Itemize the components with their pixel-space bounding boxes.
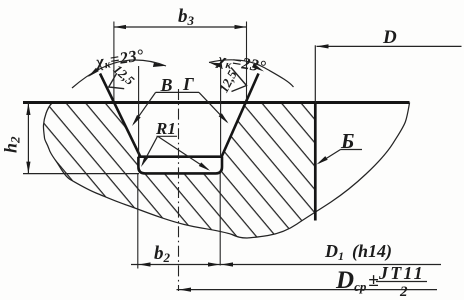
h2 arrow top — [26, 103, 30, 115]
arrow R1 right — [199, 162, 210, 170]
arrow Б — [317, 156, 328, 164]
leader В to left face — [134, 92, 156, 123]
D1 arrow — [221, 262, 233, 266]
break line (freehand section boundary curve) — [43, 103, 409, 239]
svg-text:D: D — [382, 27, 397, 48]
svg-text:D1(h14): D1(h14) — [324, 241, 392, 263]
svg-text:Г: Г — [182, 74, 194, 94]
v3 dimension line — [114, 26, 247, 28]
right roughness tick — [231, 68, 247, 92]
leader Г to right face — [199, 92, 227, 122]
v3 arrow right — [235, 25, 247, 29]
right angle arc arrow (lower-right) — [252, 64, 264, 72]
arrow Г — [219, 113, 229, 123]
groove bottom clearance box with R1 fillets — [138, 157, 222, 174]
svg-text:В: В — [160, 75, 173, 95]
groove left slant face — [100, 74, 141, 158]
hatching of material section — [20, 95, 420, 245]
svg-text:2: 2 — [399, 284, 408, 300]
arrow R1 left — [141, 155, 149, 167]
R1 leader to right fillet — [158, 137, 208, 170]
v2 arrow right — [208, 262, 220, 266]
R1 leader to left fillet — [143, 136, 158, 164]
groove bottom level line (left extension for h2) — [23, 173, 139, 175]
fraction bar — [376, 281, 427, 283]
Dcp arrow — [179, 288, 191, 292]
rim right edge (face B) bold vertical — [314, 103, 317, 221]
leader Б shelf — [341, 149, 363, 151]
groove bottom shoulder line — [138, 155, 222, 158]
v3 right extension line — [246, 22, 248, 101]
v2 / D1 dimension line — [131, 264, 441, 266]
svg-text:JT11: JT11 — [378, 263, 425, 283]
arrow В — [132, 115, 141, 126]
left angle arc arrow (right) — [153, 63, 166, 67]
groove centre line (dash-dot) — [178, 89, 180, 291]
left angle arc arrow (lower-left) — [88, 68, 99, 77]
extension line above rim edge for D — [314, 45, 316, 102]
right angle dimension arc — [209, 60, 294, 87]
right angle arc arrow (left) — [209, 63, 221, 68]
groove right slant face — [222, 74, 259, 158]
Dcp dimension line — [177, 289, 438, 291]
svg-text:R1: R1 — [155, 119, 176, 138]
right corner vertical / v2 extension line — [219, 62, 221, 266]
left angle dimension arc — [72, 60, 166, 88]
v3 left extension line — [113, 22, 115, 101]
h2 arrow bottom — [26, 162, 30, 174]
left corner vertical / v2 extension line — [137, 66, 140, 269]
leader Б — [319, 150, 341, 164]
left roughness tick — [109, 73, 125, 88]
R1 underline — [157, 135, 178, 137]
leader bar for В and Г — [156, 91, 199, 93]
v2 arrow left — [139, 262, 151, 266]
D dimension line — [317, 45, 462, 47]
v3 arrow left — [114, 25, 126, 29]
D arrow — [317, 44, 329, 48]
top rim surface line — [23, 101, 410, 104]
h2 dimension line — [27, 103, 29, 175]
